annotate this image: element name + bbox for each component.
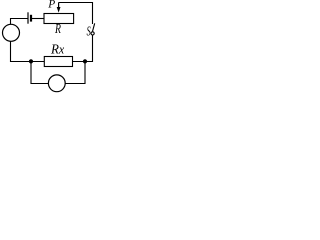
switch S blade [93,23,95,31]
wire: slider P to switch [59,3,93,25]
wire: battery to rheostat R [32,18,44,20]
wire: switch to bottom rail [73,35,93,62]
wire: G1 bottom to bottom rail [11,41,45,61]
meter G1 (top-left circle) [3,24,20,41]
wire: left junction down to meter G2 [31,62,49,84]
resistor Rx body [44,57,72,67]
meter G2 (bottom circle) [48,75,65,92]
battery long plate (+) [27,12,29,23]
rheostat R body [44,14,74,24]
node left junction [29,59,33,63]
wire: right junction down to meter G2 [65,62,85,84]
wire: G1 top to top rail [11,19,28,25]
svg-text:R: R [54,22,61,37]
slider arrow of P [58,3,60,9]
switch S contact circle [91,32,94,35]
node right junction [83,59,87,63]
svg-text:S: S [87,25,91,40]
svg-text:Rx: Rx [50,41,65,57]
battery short plate (-) [30,15,32,22]
svg-text:P: P [47,0,55,11]
